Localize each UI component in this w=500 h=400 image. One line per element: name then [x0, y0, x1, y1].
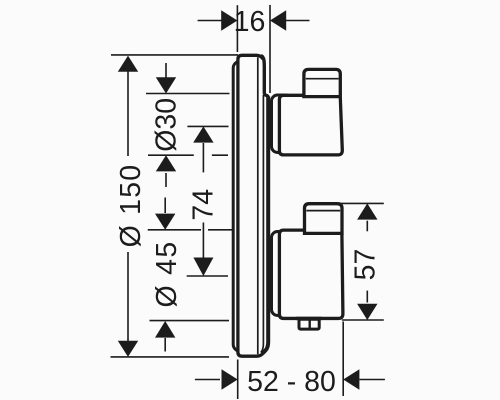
- arrowhead 74 up: [193, 126, 213, 142]
- top knob sleeve: [272, 95, 292, 153]
- escutcheon front plate: [238, 55, 268, 356]
- arrowhead Ø30 up: [156, 155, 176, 171]
- top cap seam: [306, 78, 339, 80]
- bottom knob body: [279, 230, 343, 318]
- arrowhead Ø150 up: [118, 56, 138, 72]
- bottom knob sleeve: [272, 232, 292, 316]
- plate face contour line 1: [257, 57, 259, 354]
- plate face apex (thick lower): [263, 97, 268, 354]
- extension line 52-80 left: [237, 360, 239, 400]
- dimension line Ø150: [127, 71, 129, 156]
- extension line 57 top: [338, 202, 384, 204]
- svg-text:Ø30: Ø30: [151, 98, 183, 152]
- bottom knob cap: [305, 204, 343, 234]
- dimension line 52-80 tails: [195, 379, 220, 381]
- bottom knob bottom edge over nub: [296, 317, 322, 320]
- escutcheon back flange: [233, 61, 255, 351]
- extension line top knob bottom (Ø30 bottom): [148, 154, 194, 156]
- plate right edge upper: [261, 56, 268, 98]
- extension line 16 left: [236, 5, 238, 52]
- top knob body: [279, 95, 342, 155]
- plate face contour line 2: [261, 95, 264, 353]
- svg-text:52 - 80: 52 - 80: [247, 366, 336, 398]
- dimension line 16 tails: [198, 20, 222, 22]
- top knob body outline: [279, 95, 342, 155]
- arrowhead 16 right (points left): [270, 10, 286, 30]
- arrowhead 57 up: [357, 203, 377, 219]
- svg-text:Ø 45: Ø 45: [151, 241, 183, 308]
- extension line 52-80 right: [342, 322, 344, 397]
- dimension line 74: [202, 143, 204, 172]
- arrowhead 16 left (points right): [221, 10, 237, 30]
- extension line 16 right: [269, 5, 271, 93]
- plate outline left/top/bottom: [238, 55, 264, 356]
- dimension line Ø45 arrow tails: [164, 198, 166, 214]
- svg-text:16: 16: [234, 6, 266, 38]
- arrowhead 74 down: [193, 258, 213, 277]
- extension line plate top (Ø150 top): [111, 54, 238, 56]
- svg-text:57: 57: [350, 249, 382, 281]
- extension line bottom knob centre (74 bottom): [187, 275, 228, 277]
- arrowhead 52-80 right (points left): [343, 369, 359, 389]
- arrowhead Ø45 down: [155, 214, 175, 230]
- extension line top knob top (Ø30 top): [146, 93, 230, 95]
- svg-text:Ø 150: Ø 150: [115, 164, 147, 248]
- extension line bottom knob top (Ø45 top): [148, 229, 201, 231]
- arrowhead Ø150 down: [118, 341, 138, 357]
- extension line plate bottom (Ø150 bottom): [111, 356, 230, 358]
- bottom nub divider: [309, 320, 311, 329]
- svg-text:74: 74: [188, 189, 220, 221]
- bottom knob body outline: [279, 230, 343, 318]
- top knob cap: [304, 69, 340, 96]
- dimension line Ø30 arrow tails: [165, 63, 167, 78]
- extension line 57 bottom: [342, 319, 384, 321]
- extension line bottom knob bottom (Ø45 bottom): [150, 320, 230, 322]
- arrowhead Ø45 up: [155, 321, 175, 338]
- arrowhead 52-80 left (points right): [222, 369, 238, 389]
- extension line top knob centre (74 top): [187, 125, 228, 127]
- arrowhead Ø30 down: [156, 77, 176, 93]
- bottom cap seam: [306, 210, 340, 212]
- bottom nub: [299, 319, 319, 329]
- arrowhead 57 down: [357, 304, 377, 320]
- dimension line 57 tails: [366, 221, 368, 232]
